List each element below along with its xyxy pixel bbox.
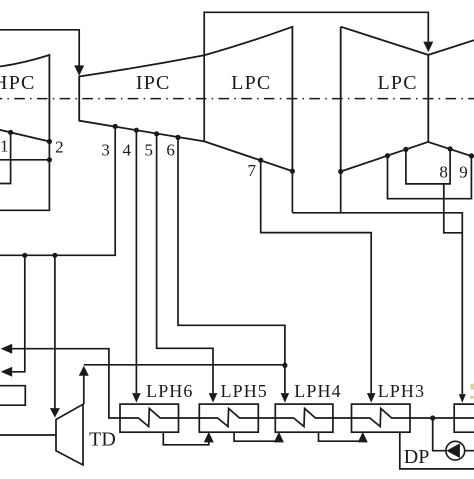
wire tap x54 to TD inlet [54,255,56,408]
wire LPH6 drain cascade [163,432,209,445]
node 4 [134,128,139,133]
arrow into LPH6 [132,393,141,403]
node tap y160 [47,157,52,162]
svg-text:6: 6 [166,140,175,159]
arrow into LPC2 [423,42,433,53]
wire node2 extraction down [0,142,49,211]
heater LPH4 zigzag [275,409,333,427]
wire extraction8 drop [444,184,463,233]
wire LPC1 exhaust corner down [291,171,293,213]
pump DP circle [446,441,465,460]
svg-text:LPC: LPC [377,72,417,94]
arrow drain exit left [1,367,13,377]
arrow into LPH3 [367,393,376,403]
turbine TD drive [56,404,83,465]
turbine HPC [0,55,49,142]
turbine LPC1 [204,27,292,171]
node TD exhaust junction [282,363,287,368]
heater LPH4 box [275,404,333,432]
turbine IPC [79,55,204,141]
wire extraction9 U-link [388,156,472,199]
svg-text:2: 2 [55,137,64,156]
svg-text:9: 9 [459,162,468,181]
node 9 left [385,153,390,158]
wire tap x24.8 to left arrow [10,255,25,371]
heater LPH3 box [352,404,411,432]
svg-text:8: 8 [439,162,448,181]
svg-text:4: 4 [122,140,131,159]
node 2 [47,139,52,144]
svg-text:3: 3 [101,140,110,159]
svg-text:5: 5 [144,140,153,159]
arrow feedwater exit left [1,344,13,354]
wire feedwater LPH4 to LPH3 [333,417,352,419]
svg-text:TD: TD [89,429,116,451]
turbine LPC2 (double-flow) [341,27,474,172]
wire feedwater LPH6 to LPH5 [179,417,200,419]
heater LPH5 zigzag [199,409,258,427]
wire LPH4 drain cascade [319,432,363,441]
svg-text:IPC: IPC [136,72,171,94]
node 8 left [403,147,408,152]
node 6 [175,135,180,140]
svg-text:HPC: HPC [0,72,36,94]
arrow TD exhaust up [79,366,89,376]
node LPC1 exhaust corner [290,169,295,174]
wire LPH3 drain to right [400,432,474,469]
node tap x54 [52,253,57,258]
node 8 right [448,146,453,151]
node 1 [8,130,13,135]
wire feedwater exit left [10,349,120,418]
wire reheat line to IPC inlet [0,30,79,66]
turbine LPC2 center divider [427,55,429,142]
wire extraction8 U-link [406,149,450,184]
heater LPH2 box (cut off) [454,404,474,432]
arrow cascade into LPH3 [358,432,368,443]
heater LPH6 zigzag [120,409,179,427]
node LPC2 exhaust corner [338,169,343,174]
arrow cascade into LPH4 [274,432,284,443]
wire LPH5 drain cascade [234,432,279,441]
wire node1 drain to left [0,132,11,183]
wire TD shaft [0,434,56,436]
svg-text:7: 7 [248,161,257,180]
node feedwater DP junction [430,415,435,420]
arrow into LPH2 [459,394,466,403]
wire node5 extraction to LPH5 [157,134,213,393]
wire feedwater LPH3 to LPH2 [410,417,454,419]
box bottom-left (cut off) [0,386,25,406]
wire node7 extraction to LPH3 [261,160,372,393]
arrow into LPH5 [209,393,218,403]
wire node6 extraction to LPH4 [178,137,285,393]
svg-text:DP: DP [404,446,430,468]
arrow into LPH4 [281,393,290,403]
svg-text:LPH6: LPH6 [146,381,193,401]
heater LPH5 box [199,404,258,432]
wire node3 extraction down-left [0,126,115,255]
svg-text:LPH4: LPH4 [294,381,341,401]
svg-text:LPH5: LPH5 [221,381,268,401]
node tap x24.8 [22,253,27,258]
wire TD exhaust to extraction6 line [84,365,285,405]
svg-text:LPH3: LPH3 [378,381,425,401]
label LPH2 fragment (cut letter, pale) [470,384,474,399]
svg-text:1: 1 [0,137,8,156]
heater LPH2 feed line [454,417,474,419]
wire LPC2 exhaust corner down [340,172,342,213]
arrow into TD [50,408,60,418]
heater LPH6 box [120,404,179,432]
wire node4 extraction to LPH6 [135,130,137,393]
node 7 [258,158,263,163]
node 3 [113,124,118,129]
wire tap to left at y160 [0,159,49,161]
wire feedwater LPH5 to LPH4 [258,417,275,419]
pump DP impeller triangle [446,443,460,458]
svg-text:LPC: LPC [231,72,271,94]
arrow into IPC [74,65,84,76]
pump DP suction/discharge wires [433,418,474,451]
heater LPH3 zigzag [352,409,411,427]
node 9 right [469,153,474,158]
node 5 [154,131,159,136]
wire long header to LPH2 [292,213,462,394]
arrow cascade into LPH5 [204,432,214,443]
shaft centerline (dash-dot) [0,98,474,100]
wire crossover pipe IPC to LPC [204,12,428,141]
